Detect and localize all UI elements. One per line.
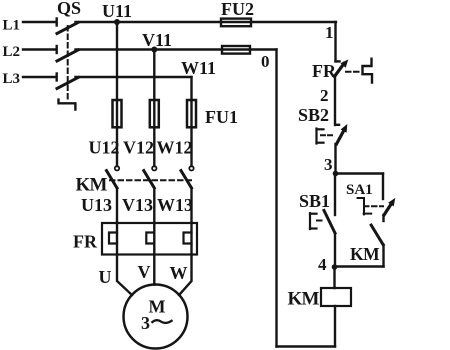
svg-text:0: 0 xyxy=(261,52,270,71)
svg-text:FU1: FU1 xyxy=(205,107,238,127)
svg-text:W: W xyxy=(170,263,188,283)
svg-text:FR: FR xyxy=(312,61,337,81)
svg-text:U11: U11 xyxy=(102,1,132,21)
svg-text:4: 4 xyxy=(318,255,327,274)
svg-text:L1: L1 xyxy=(3,18,21,34)
svg-text:3: 3 xyxy=(141,313,150,333)
svg-text:U12: U12 xyxy=(89,138,120,158)
svg-text:U13: U13 xyxy=(81,195,112,215)
svg-text:1: 1 xyxy=(325,23,334,42)
svg-text:V13: V13 xyxy=(122,195,153,215)
svg-text:W12: W12 xyxy=(157,138,193,158)
svg-text:QS: QS xyxy=(57,0,81,18)
svg-text:W11: W11 xyxy=(181,58,216,78)
svg-text:SB1: SB1 xyxy=(299,191,330,211)
svg-text:FR: FR xyxy=(73,232,98,252)
svg-text:L2: L2 xyxy=(3,44,21,60)
svg-text:2: 2 xyxy=(320,86,329,105)
svg-text:KM: KM xyxy=(76,175,108,196)
svg-text:SA1: SA1 xyxy=(346,182,373,198)
svg-text:KM: KM xyxy=(350,244,380,264)
svg-text:SB2: SB2 xyxy=(298,105,329,125)
svg-text:M: M xyxy=(149,297,166,317)
svg-text:FU2: FU2 xyxy=(221,0,254,19)
svg-text:W13: W13 xyxy=(157,195,193,215)
svg-text:V11: V11 xyxy=(142,30,172,50)
svg-text:U: U xyxy=(99,267,112,287)
svg-text:L3: L3 xyxy=(3,71,21,87)
svg-text:V12: V12 xyxy=(123,138,154,158)
svg-text:V: V xyxy=(138,262,151,282)
svg-text:3: 3 xyxy=(324,155,333,174)
svg-text:KM: KM xyxy=(288,289,320,310)
